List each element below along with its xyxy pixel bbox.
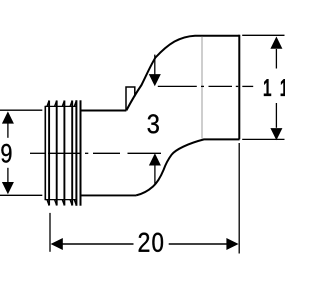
collar bottom edge: [81, 194, 137, 196]
fin 1: [48, 101, 50, 206]
dim 20 left extension line: [49, 213, 51, 252]
socket face line: [44, 106, 46, 200]
dim 11 bottom extension line: [242, 138, 284, 140]
lower body profile curve and pipe bottom edge: [136, 139, 240, 195]
fin 3: [63, 101, 65, 206]
dim 9 bottom extension line: [0, 194, 42, 196]
dim label 11 first digit: [264, 79, 271, 95]
dim label 3: [148, 114, 159, 133]
dim 3 lower arrow: [154, 165, 156, 185]
dim label 11 second digit (clipped at edge): [281, 79, 288, 95]
outlet pipe right edge: [238, 35, 240, 140]
upper body profile curve: [126, 36, 239, 111]
dim 9 upper arrow: [2, 111, 14, 123]
dim 3 upper arrow: [154, 55, 156, 75]
socket centerline: [30, 152, 161, 154]
socket rim right line: [80, 100, 82, 205]
dim label 20 digit 2: [139, 233, 150, 252]
positioning lug: [126, 87, 135, 110]
dim 20 right extension line: [238, 143, 240, 254]
dim 11 top arrow: [270, 37, 282, 49]
dim 20 right arrow: [226, 238, 238, 250]
dim 11 bottom arrow: [270, 128, 282, 140]
pipe centerline: [158, 85, 253, 87]
dim label 20 digit 0: [152, 233, 163, 252]
dim 11 top extension line: [242, 34, 284, 36]
dim 20 line right segment: [169, 243, 227, 245]
socket fin bottom zigzag: [45, 199, 76, 201]
collar top edge: [81, 110, 127, 112]
insertion depth line (gray): [201, 37, 203, 139]
socket rim left line: [75, 100, 77, 205]
fin 4: [71, 101, 73, 206]
dim 20 left arrow: [51, 238, 63, 250]
dim 9 top extension line: [0, 109, 42, 111]
socket fin top zigzag: [45, 105, 76, 107]
dim 9 lower arrow: [2, 182, 14, 194]
dim label 9: [1, 144, 11, 163]
fin 2: [56, 101, 58, 206]
dim 20 line left segment: [62, 243, 133, 245]
